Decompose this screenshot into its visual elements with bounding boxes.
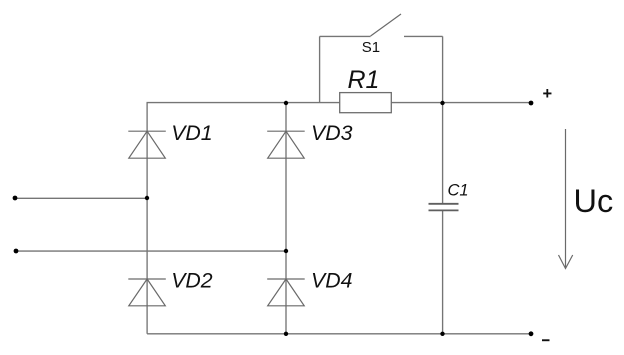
node: AC input 2 left terminal <box>14 249 19 254</box>
svg-text:C1: C1 <box>448 182 469 200</box>
svg-text:R1: R1 <box>348 66 380 94</box>
wire: right branch lower (C1 bottom plate to bottom bus) <box>442 211 444 334</box>
junction: right branch / top bus <box>440 101 444 105</box>
wire: switch right horizontal lead <box>404 35 443 37</box>
svg-text:+: + <box>542 85 552 103</box>
wire: right branch upper (switch right lead down through R1 node to C1 top plate) <box>442 36 444 203</box>
junction: middle branch / bottom bus <box>284 332 288 336</box>
wire: AC input line 1 <box>15 197 147 199</box>
wire: switch loop left vertical <box>319 36 321 102</box>
arrow Uc voltage <box>559 129 573 269</box>
junction: AC input 1 / left branch <box>145 196 149 200</box>
switch S1 lever (open) <box>371 14 401 36</box>
capacitor C1 plates <box>429 204 459 211</box>
svg-text:VD4: VD4 <box>311 269 353 293</box>
label - polarity <box>542 339 550 341</box>
svg-text:VD1: VD1 <box>171 121 212 145</box>
node: AC input 1 left terminal <box>13 196 18 201</box>
svg-text:VD2: VD2 <box>171 269 213 293</box>
resistor R1 body <box>340 93 392 113</box>
wire: middle bridge branch vertical <box>285 103 287 334</box>
wire: left bridge branch vertical <box>146 103 148 334</box>
wire: switch left horizontal lead <box>320 35 371 37</box>
diode VD2 <box>128 279 166 306</box>
diode VD3 <box>267 131 305 158</box>
wire: AC input line 2 <box>16 250 286 252</box>
node: - output terminal <box>529 331 534 336</box>
diode VD1 <box>128 131 166 158</box>
svg-text:Uc: Uc <box>574 183 614 219</box>
wire: top bus (+) rail from bridge corner to + terminal <box>147 102 532 104</box>
svg-text:VD3: VD3 <box>311 121 353 145</box>
svg-text:S1: S1 <box>362 39 380 56</box>
junction: AC input 2 / middle branch <box>284 249 288 253</box>
wire: bottom bus (-) rail <box>147 333 531 335</box>
diode VD4 <box>267 279 305 306</box>
junction: middle branch / top bus <box>284 101 288 105</box>
node: + output terminal <box>529 101 534 106</box>
junction: right branch / bottom bus <box>440 332 444 336</box>
